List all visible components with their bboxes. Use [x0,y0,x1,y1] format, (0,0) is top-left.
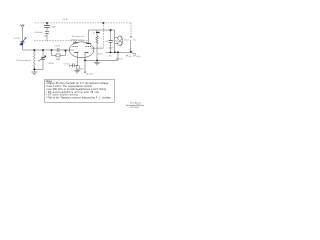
svg-text:12/2020: 12/2020 [130,107,139,109]
svg-text:VC1(?): VC1(?) [14,38,21,40]
svg-text:1(?)µf: 1(?)µf [113,41,118,43]
svg-text:.05uF(or): .05uF(or) [34,31,43,34]
svg-text:T1: T1 [93,32,96,34]
svg-text:(A- batt): (A- batt) [86,73,93,76]
svg-text:+45(?): +45(?) [108,47,114,49]
svg-text:C1,B+: C1,B+ [63,19,70,21]
svg-text:(fone): (fone) [124,40,129,42]
svg-text:C5(.05): C5(.05) [64,63,70,65]
svg-text:6SN7(or sim.): 6SN7(or sim.) [71,39,84,42]
svg-text:50µF: 50µF [51,26,57,28]
svg-text:R2(?): R2(?) [98,54,103,56]
svg-text:RF choke(or sim.): RF choke(or sim.) [72,35,84,38]
svg-text:(B batt.): (B batt.) [116,57,124,60]
svg-text:• This is the Twinplex receive: • This is the Twinplex receiver featured… [46,97,112,100]
svg-text:365pf: 365pf [48,63,54,65]
svg-text:B+: B+ [133,39,136,41]
svg-text:45v: 45v [128,56,132,58]
svg-text:C2(?): C2(?) [55,46,61,48]
svg-text:1µF: 1µF [44,35,48,37]
svg-text:T1(secondary): T1(secondary) [16,59,31,62]
svg-text:1K(?): 1K(?) [80,68,84,70]
svg-text:2MΩ: 2MΩ [56,58,61,61]
svg-text:45v: 45v [109,55,113,57]
svg-text:C4: C4 [105,41,109,43]
svg-text:+45v: +45v [136,56,142,58]
